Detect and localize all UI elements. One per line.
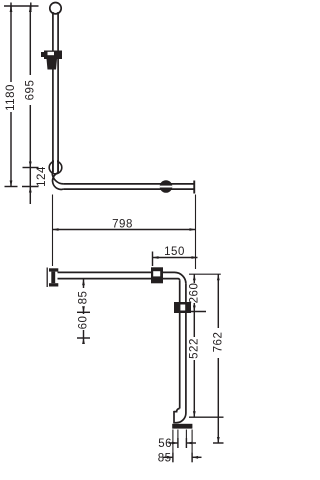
svg-text:60: 60 [78, 316, 90, 330]
dimension line 150 [153, 257, 198, 259]
shower rail vertical tube [52, 12, 54, 173]
tick top dim 695 [30, 3, 32, 11]
extension line left from bar to plan [52, 195, 54, 267]
plan leg tube [179, 280, 181, 408]
tick top dim 1180 [10, 3, 12, 11]
svg-text:85: 85 [78, 291, 90, 305]
svg-text:124: 124 [36, 166, 48, 187]
plan bracket on bar [151, 267, 163, 283]
extension line y274 to dim columns [189, 273, 221, 275]
dim 124 tail below with up arrow [29, 187, 31, 205]
rail over flange [52, 160, 54, 173]
svg-text:695: 695 [25, 80, 37, 101]
svg-text:260: 260 [189, 283, 201, 304]
slider holder [41, 51, 62, 70]
arrow 695 top [29, 6, 32, 12]
technical dimension drawing: angled grab bar with shower rail, front view and plan view [0, 0, 251, 480]
dimension 522 column [193, 312, 195, 338]
wall flange ring on rail [49, 161, 62, 174]
svg-text:1180: 1180 [5, 84, 17, 111]
svg-text:798: 798 [112, 219, 133, 231]
arrow 1180 bottom [10, 181, 13, 187]
arrow 1180 top [10, 6, 13, 12]
dimension 762 column [217, 274, 219, 328]
tick dim 695 bottom [23, 167, 39, 169]
shower rail top circle [50, 3, 61, 14]
plan corner inner arc [178, 279, 180, 281]
plan bar tube [58, 271, 175, 273]
arrow 695 bottom [29, 162, 32, 168]
tick 150 left [152, 252, 154, 267]
plan corner outer arc [175, 272, 186, 283]
plan leg end bend [174, 409, 180, 412]
dimension line 695 [29, 6, 31, 75]
wall flange disc on bar [160, 180, 173, 193]
elbow outer arc [52, 173, 63, 184]
svg-text:150: 150 [164, 246, 185, 258]
extension line right from bar end to plan [195, 195, 197, 270]
dimension 260 column [193, 274, 195, 283]
plan bracket on leg [174, 302, 191, 313]
extension dashes bottom [177, 430, 179, 439]
svg-text:56: 56 [158, 438, 172, 450]
horizontal grab bar tube [64, 183, 194, 185]
bar end tick [193, 181, 195, 194]
dimension line 1180 [10, 6, 12, 82]
plan: shower rail wall plate left end [46, 268, 48, 288]
dimension line 798 [53, 229, 196, 231]
top extension line [4, 5, 39, 7]
plan leg end flange plate [172, 424, 192, 429]
svg-text:762: 762 [213, 332, 225, 353]
slider slot [48, 52, 55, 55]
dimension 85/60 column below plan bar [83, 279, 85, 288]
tick bottom dim 1180 [5, 186, 18, 188]
elbow inner arc [53, 173, 64, 190]
svg-text:85: 85 [158, 452, 172, 464]
extension dashes for 85 row [172, 430, 174, 453]
svg-text:522: 522 [189, 338, 201, 359]
dimension 124 line [29, 168, 31, 187]
tick dim 124 bottom [22, 186, 39, 188]
